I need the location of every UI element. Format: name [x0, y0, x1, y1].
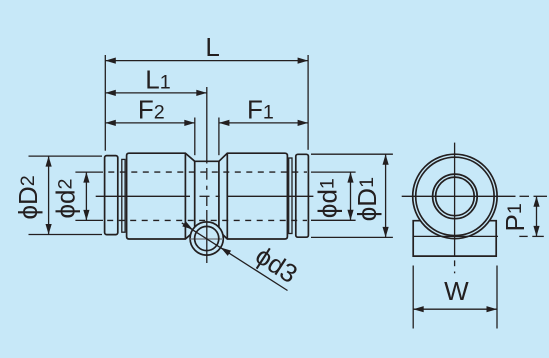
waist right edge	[218, 161, 220, 231]
body outer circle	[413, 154, 497, 238]
phid2 top extension	[75, 171, 103, 173]
P1 bottom dashed extension	[519, 235, 527, 237]
svg-text:ϕd2: ϕd2	[50, 179, 80, 219]
svg-text:ϕD2: ϕD2	[13, 175, 43, 219]
svg-text:ϕD1: ϕD1	[352, 177, 382, 221]
leader arrow upper-left	[182, 221, 193, 229]
bore hidden line bottom	[107, 219, 307, 221]
svg-text:F1: F1	[247, 94, 274, 124]
phiD1 top extension	[311, 153, 393, 155]
leader arrow lower-right	[221, 248, 232, 256]
end view vertical centerline	[454, 143, 456, 274]
phiD1 bottom extension	[311, 236, 393, 238]
W left extension	[412, 266, 414, 329]
dimension L	[105, 60, 308, 62]
phid1 bottom extension	[311, 219, 356, 221]
horizontal centerline	[96, 195, 314, 197]
left ring band	[122, 159, 125, 232]
end view horizontal centerline	[402, 195, 547, 197]
phiD1 dimension line	[385, 154, 387, 237]
dimension F2	[105, 122, 195, 124]
W dimension line	[413, 308, 497, 310]
gauge hole inner circle	[195, 226, 219, 250]
collet outer circle	[433, 174, 478, 219]
svg-text:ϕd1: ϕd1	[313, 178, 343, 218]
tube bore circle	[436, 177, 475, 216]
F2 extension line	[194, 118, 196, 156]
right ring band	[289, 158, 292, 234]
phiD2 dimension line	[48, 156, 50, 234]
hole vertical centerline	[206, 87, 208, 263]
right shoulder edge	[226, 153, 228, 239]
leader line	[182, 223, 288, 291]
svg-text:F2: F2	[138, 94, 165, 124]
svg-text:L: L	[205, 32, 219, 62]
fitting body outline with waist	[127, 153, 288, 239]
phid2 bottom extension	[75, 219, 103, 221]
body chamfer circle	[416, 157, 494, 235]
W right extension	[496, 266, 498, 329]
P1 dimension line	[536, 196, 538, 236]
right release collar	[296, 154, 309, 237]
dimension F1	[219, 122, 308, 124]
waist left edge	[194, 161, 196, 231]
svg-text:W: W	[444, 276, 469, 306]
svg-text:L1: L1	[145, 64, 170, 94]
mounting base rectangle	[413, 221, 496, 256]
left release collar	[105, 156, 118, 235]
left shoulder edge	[184, 153, 186, 239]
phid2 dimension line	[85, 172, 87, 220]
F1 extension line	[218, 118, 220, 156]
extension line left (L,L1,F2)	[104, 55, 106, 151]
phiD2 top extension	[29, 155, 103, 157]
base seat line	[413, 235, 498, 237]
svg-text:ϕd3: ϕd3	[250, 240, 303, 289]
body bottom edge seen through hole	[190, 238, 223, 240]
phid1 dimension line	[350, 172, 352, 220]
gauge hole outer circle	[190, 222, 223, 255]
phid1 top extension	[311, 171, 356, 173]
extension line right (L,F1)	[307, 55, 309, 150]
svg-text:P1: P1	[500, 203, 530, 231]
dimension L1	[105, 92, 207, 94]
phiD2 bottom extension	[29, 234, 103, 236]
bore hidden line top	[108, 171, 307, 173]
